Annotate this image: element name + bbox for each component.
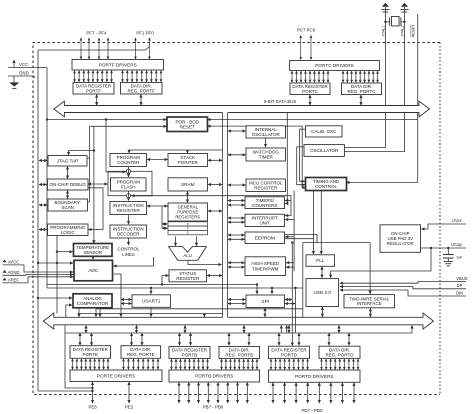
wire column to high speed timer right A	[286, 262, 294, 264]
box DATA REGISTER PORTB	[169, 347, 210, 359]
svg-text:ALU: ALU	[183, 253, 191, 258]
svg-text:PD7 - PD0: PD7 - PD0	[302, 408, 324, 413]
wire AVCC to ADC	[24, 265, 73, 272]
svg-text:REGISTER: REGISTER	[254, 185, 278, 190]
pin VBUS	[437, 276, 468, 282]
wire column to program counter	[129, 150, 223, 153]
wire USB to bus	[321, 307, 323, 317]
box TIMING AND CONTROL	[306, 178, 347, 191]
wire JTAG TAP to ON-CHIP DEBUG	[67, 167, 69, 179]
svg-text:PORTF DRIVERS: PORTF DRIVERS	[99, 62, 137, 67]
wire column to EEPROM B	[228, 238, 245, 240]
svg-text:PE2: PE2	[125, 405, 134, 410]
wire decoder to control lines	[128, 238, 130, 245]
wire register index feed	[161, 206, 163, 228]
wire drop to bus D	[150, 314, 152, 317]
svg-text:CONTROL: CONTROL	[315, 184, 337, 189]
wire PORTC dir to bus	[360, 95, 362, 105]
svg-text:REGISTER: REGISTER	[117, 208, 141, 213]
wire timing to PLL B	[320, 191, 322, 254]
wire ON-CHIP DEBUG to BOUNDARY SCAN	[67, 191, 69, 199]
svg-text:PF7 - PF4: PF7 - PF4	[86, 31, 107, 36]
svg-text:REGULATOR: REGULATOR	[387, 241, 414, 246]
wires PORTE register to drivers	[73, 359, 109, 370]
wire PE6 pin	[92, 382, 94, 403]
wire bus to line stub D2	[338, 325, 340, 333]
box INSTRUCTION DECODER	[110, 225, 147, 238]
wire riser to bus B	[286, 326, 288, 334]
wire top power rail horizontal	[38, 46, 149, 50]
wire column to timers A	[228, 200, 245, 202]
svg-text:REG. PORTE: REG. PORTE	[127, 352, 155, 357]
wire net down to boundary scan	[88, 126, 89, 202]
svg-text:SCAN: SCAN	[61, 205, 74, 210]
box OSCILLATOR	[304, 145, 344, 157]
wire column to high speed timer A	[228, 262, 245, 264]
wire column to MCU control register	[228, 184, 246, 186]
box PORTD DRIVERS	[269, 370, 361, 382]
junction PE6 net B	[91, 390, 93, 392]
box BOUNDARY SCAN	[48, 199, 88, 211]
box MCU CONTROL REGISTER	[246, 179, 286, 192]
box WATCHDOG TIMER	[246, 148, 286, 161]
junction rail comparator	[37, 297, 39, 299]
svg-text:COUNTER: COUNTER	[117, 160, 140, 165]
box ON-CHIP USB PAD 3V REGULATOR	[380, 225, 421, 253]
box STACK POINTER	[168, 154, 208, 167]
wire UVcc to regulator	[422, 224, 438, 229]
wires PORTF drivers to data dir register	[123, 71, 162, 82]
wire bus column to flash	[105, 120, 107, 173]
wire program counter to program flash	[128, 167, 130, 177]
wire drop to bus E	[203, 314, 205, 317]
wire data bus column B	[227, 112, 229, 317]
box DATA REGISTER PORTD	[269, 346, 310, 358]
svg-text:POINTER: POINTER	[178, 160, 199, 165]
box PROGRAM FLASH	[111, 178, 147, 191]
wire net to timers right	[285, 200, 291, 202]
svg-text:PORTE: PORTE	[83, 352, 98, 357]
junction circle program counter to flash	[126, 169, 130, 173]
box USART1	[132, 295, 171, 308]
wire data bus column A	[222, 112, 224, 317]
wires PORTB pins PB7-PB0	[179, 383, 247, 404]
svg-text:UNIT: UNIT	[260, 221, 271, 226]
wire line to port register B1	[179, 333, 181, 345]
wire control lines to ADC	[114, 257, 154, 266]
wire riser to bus A	[280, 326, 282, 334]
svg-text:FLASH: FLASH	[121, 185, 136, 190]
wire comparator to line A	[78, 308, 80, 314]
wire AREF to ADC	[28, 277, 73, 283]
svg-text:USB 2.0: USB 2.0	[314, 290, 332, 295]
junction line B	[271, 287, 273, 289]
wire timing to PLL A	[312, 191, 314, 254]
wire DM to USB	[340, 290, 437, 296]
wire oscillator to timing	[297, 147, 305, 185]
wire column to SPI A	[228, 299, 246, 301]
wire bus to analog comparator	[66, 305, 72, 317]
wires PORTD pins PD7-PD0	[273, 383, 354, 403]
box TWO-WIRE SERIAL INTERFACE	[344, 295, 395, 308]
svg-text:PORTC: PORTC	[302, 89, 318, 94]
box PLL	[306, 255, 335, 266]
svg-text:XTAL2: XTAL2	[401, 25, 405, 36]
box DATA REGISTER PORTF	[73, 83, 114, 95]
crystal symbol	[385, 17, 404, 27]
wire serial column to PORTD register	[291, 243, 293, 346]
wire instruction register to decoder	[128, 215, 130, 225]
wire internal oscillator to watchdog	[265, 138, 267, 147]
wire serial net column	[302, 243, 304, 318]
wire PE2 pin	[128, 382, 130, 403]
wire line to port register D3	[328, 333, 330, 345]
wire line to port register D4	[348, 333, 350, 345]
svg-text:1uF: 1uF	[456, 256, 463, 260]
svg-text:RESET: RESET	[412, 24, 416, 37]
wire status register to internal line	[162, 276, 169, 285]
svg-text:JTAG TAP: JTAG TAP	[57, 158, 79, 163]
box PORTE DRIVERS	[70, 370, 162, 382]
outer dotted chip boundary right edge	[439, 43, 441, 395]
wire flash loop rectangle	[108, 171, 152, 195]
svg-text:VCC: VCC	[19, 62, 28, 67]
wires PORTD dir to drivers	[322, 359, 359, 370]
svg-text:PLL: PLL	[316, 258, 325, 263]
wire column to high speed timer B	[228, 266, 245, 268]
wire POR-BOD to RESET line	[208, 119, 418, 121]
wire column to interrupt A	[228, 217, 245, 219]
wire instruction register to registers	[147, 205, 168, 207]
wire PORTF pin lines	[81, 38, 149, 59]
box X Y Z register rows	[168, 222, 208, 235]
wire net to USART1 B	[121, 303, 132, 305]
wire net to POR-BOD left	[89, 125, 166, 127]
svg-text:SENSOR: SENSOR	[83, 250, 102, 255]
svg-text:PORTD: PORTD	[281, 352, 297, 357]
wire SRAM to registers	[187, 192, 189, 203]
svg-text:DECODER: DECODER	[117, 232, 140, 237]
svg-text:AVCC: AVCC	[8, 260, 19, 265]
bus 8-bit data bus top	[54, 101, 430, 117]
svg-text:REGISTER: REGISTER	[176, 276, 200, 281]
junction rail analog	[37, 262, 39, 264]
wire SPI right to column A	[285, 299, 292, 301]
wire bus to line stub E	[85, 325, 87, 333]
svg-text:REG. PORTD: REG. PORTD	[326, 352, 355, 357]
wire SRAM to bus column	[208, 184, 222, 186]
svg-text:TIMER/PWM: TIMER/PWM	[252, 266, 278, 271]
wire line to port register B5	[248, 333, 250, 345]
svg-text:PORTE DRIVERS: PORTE DRIVERS	[97, 373, 135, 378]
svg-text:OSCILLATOR: OSCILLATOR	[252, 132, 281, 137]
box SRAM	[168, 178, 208, 191]
wire program counter to stack pointer	[147, 159, 168, 161]
wire rail to PROGRAMMING LOGIC	[39, 229, 47, 231]
box TIMERS COUNTERS	[245, 197, 285, 209]
box DATA REGISTER PORTE	[70, 346, 111, 359]
wire line to port register E4	[141, 333, 143, 345]
svg-text:TIMER: TIMER	[259, 155, 274, 160]
bus tap gap top bus	[222, 112, 228, 114]
wire registers to bus column	[208, 210, 222, 212]
wire bus column to flash junction	[106, 171, 125, 173]
svg-text:AGND: AGND	[7, 270, 19, 275]
junction line B column	[294, 287, 296, 289]
wire JTAG right stub	[88, 157, 90, 159]
wire net to USART1 A	[121, 299, 132, 301]
svg-text:REG. PORTC: REG. PORTC	[348, 89, 377, 94]
junction XTAL1 crystal tap	[384, 21, 386, 23]
svg-text:XTAL1: XTAL1	[382, 25, 386, 36]
wire column to temperature sensor	[57, 251, 73, 253]
svg-text:ADC: ADC	[88, 268, 99, 273]
box CALIB OSC	[306, 126, 343, 137]
wire left power rail to PE6	[38, 50, 93, 391]
junction JTAG feed	[93, 149, 95, 151]
wire line to port register B4	[228, 333, 230, 345]
svg-text:REG. PORTB: REG. PORTB	[225, 353, 253, 358]
box ANALOG COMPARATOR	[73, 294, 112, 308]
wire column to interrupt B	[228, 221, 245, 223]
box ON-CHIP DEBUG	[48, 179, 89, 190]
wire drop to bus B	[99, 314, 101, 317]
outer dashed chip boundary	[33, 43, 440, 395]
svg-text:ON-CHIP DEBUG: ON-CHIP DEBUG	[50, 182, 87, 187]
wire column to timers B	[228, 204, 245, 206]
junction status register line	[161, 283, 163, 285]
box PORTC DRIVERS	[290, 61, 380, 71]
box TEMPERATURE SENSOR	[74, 244, 113, 257]
wire PORTF dir to bus	[140, 95, 142, 106]
wire rail to analog comparator	[38, 297, 72, 299]
junction serial column	[291, 241, 293, 243]
wire line B to SPI	[271, 288, 273, 294]
wire ADC to lower net	[114, 274, 122, 314]
wire line to port register E2	[91, 333, 93, 345]
svg-text:USART1: USART1	[142, 299, 161, 304]
svg-text:COUNTERS: COUNTERS	[252, 203, 277, 208]
wire EEPROM right lower	[285, 238, 313, 240]
wire line to port register E1	[79, 333, 81, 345]
wire POR-BOD to timing and control	[208, 126, 306, 188]
box ADC	[74, 260, 113, 281]
wire line to USART1 top	[150, 287, 152, 294]
svg-text:PORTB: PORTB	[182, 353, 197, 358]
wire PLL to USB	[321, 267, 323, 278]
wire EEPROM right upper	[285, 235, 317, 243]
wire ON-CHIP DEBUG to PROGRAMMING LOGIC	[88, 188, 103, 230]
box PORTF DRIVERS	[72, 60, 164, 71]
junction rail POR-BOD	[46, 118, 48, 120]
wire line to port register E3	[131, 333, 133, 345]
svg-text:UCap: UCap	[451, 242, 462, 247]
wire rail to BOUNDARY SCAN	[39, 204, 47, 206]
pin AVCC	[2, 260, 24, 265]
svg-text:LOGIC: LOGIC	[61, 230, 76, 235]
wire bus to line stub B2	[243, 325, 245, 333]
box PROGRAMMING LOGIC	[48, 224, 89, 236]
wire to X register	[162, 223, 168, 225]
wire column to EEPROM right	[285, 236, 294, 238]
pin UVcc	[437, 218, 466, 224]
svg-text:RESET: RESET	[180, 124, 195, 129]
box DATA REGISTER PORTC	[290, 83, 330, 95]
box INTERNAL OSCILLATOR	[246, 126, 286, 138]
svg-text:PF1 PF0: PF1 PF0	[136, 31, 154, 36]
wire column to EEPROM A	[228, 234, 245, 236]
ground symbol below capacitor	[444, 262, 453, 266]
box DATA DIR REG PORTD	[319, 346, 360, 358]
box INSTRUCTION REGISTER	[110, 202, 147, 215]
pin DP	[437, 283, 466, 289]
wire column to internal oscillator	[228, 130, 246, 132]
wire column to high speed timer right B	[286, 266, 294, 268]
wire serial net horizontal	[303, 242, 370, 244]
wire comparator output line	[78, 313, 223, 315]
box PORTB DRIVERS	[169, 370, 260, 382]
svg-text:PORTC DRIVERS: PORTC DRIVERS	[315, 63, 353, 68]
junction UCap net	[430, 247, 432, 249]
wire programming logic down column	[56, 236, 58, 314]
pin DM	[437, 290, 466, 296]
svg-text:REG. PORTF: REG. PORTF	[128, 88, 156, 93]
wire PORTF register to bus	[96, 95, 98, 106]
junction line A	[256, 283, 258, 285]
svg-text:SRAM: SRAM	[181, 182, 195, 187]
box GENERAL PURPOSE REGISTERS	[168, 203, 208, 221]
wire comparator to line B	[99, 308, 101, 314]
box DATA DIR REG PORTE	[121, 346, 161, 359]
junction ADC feed	[56, 262, 58, 264]
wires PORTC drivers to data register	[292, 71, 328, 82]
box POR-BOD RESET	[167, 117, 208, 132]
wire bus branch to PE6	[65, 325, 93, 388]
svg-text:CONTROL: CONTROL	[117, 247, 139, 252]
wire flash loop to lower junction	[132, 195, 152, 197]
wire timing control down column	[293, 191, 295, 272]
svg-text:PORTF: PORTF	[86, 88, 101, 93]
svg-text:PORTD DRIVERS: PORTD DRIVERS	[295, 374, 333, 379]
wire DP to USB	[340, 287, 437, 289]
wire USART1 bottom	[150, 308, 152, 314]
pin XTAL1 pad symbol	[381, 3, 389, 12]
junction UCap capacitor tap	[447, 247, 449, 249]
wire bus to line stub D	[288, 325, 290, 333]
box INTERRUPT UNIT	[245, 214, 285, 226]
svg-text:DM: DM	[456, 290, 463, 295]
wire ALU to data bus column	[188, 260, 222, 264]
wire rail to ADC upper left	[38, 262, 73, 264]
svg-text:PC7 PC6: PC7 PC6	[297, 28, 316, 33]
wires PORTB register to drivers	[172, 359, 208, 369]
wires PORTD register to drivers	[271, 359, 308, 370]
wire line to port register D2	[298, 333, 300, 345]
wire UCap net to USB top	[331, 248, 431, 278]
svg-text:8-BIT DATA BUS: 8-BIT DATA BUS	[264, 99, 296, 104]
wire distribution line below bus	[65, 332, 412, 334]
pin XTAL2 pad symbol	[400, 3, 408, 12]
junction PE6 net A	[91, 387, 93, 389]
wire XTAL1 to oscillator	[344, 7, 385, 148]
wire bus column to timers	[285, 112, 287, 203]
wire bus to line stub E2	[136, 325, 138, 333]
svg-text:OSCILLATOR: OSCILLATOR	[310, 148, 339, 153]
wire net down to temperature sensor	[93, 126, 95, 243]
box STATUS REGISTER	[169, 270, 207, 282]
wire net to two-wire interface	[369, 243, 371, 294]
box DATA DIR REG PORTF	[121, 83, 163, 95]
box HIGH SPEED TIMER PWM	[245, 257, 286, 276]
wire registers to ALU left	[175, 236, 177, 246]
junction XTAL2 crystal tap	[403, 21, 405, 23]
wire column to watchdog timer	[228, 154, 246, 156]
pin AGND	[2, 270, 26, 275]
wire AGND to ADC	[26, 274, 73, 277]
pin VCC	[8, 60, 47, 68]
bus data bus bottom	[43, 313, 433, 329]
wire XTAL2 to oscillator	[344, 7, 404, 152]
box EEPROM	[245, 232, 285, 244]
wire temperature sensor to ADC	[92, 256, 94, 259]
junction flash column	[105, 118, 107, 120]
wire VCC rail vertical	[46, 68, 48, 289]
svg-text:GND: GND	[19, 71, 29, 76]
alu ALU	[169, 247, 207, 261]
wire VBUS to USB	[340, 282, 437, 284]
bus tap gap bottom bus	[222, 316, 228, 318]
wire line to port register B2	[190, 333, 192, 345]
box USB 2.0	[306, 279, 339, 307]
wire to Y register	[162, 227, 168, 229]
wire rail to POR-BOD left	[47, 119, 167, 121]
svg-text:LINES: LINES	[122, 252, 135, 257]
box PROGRAM COUNTER	[110, 154, 147, 167]
junction temperature sensor feed	[56, 251, 58, 253]
wire registers to ALU right	[196, 236, 198, 246]
wire SPI right to column B	[285, 303, 295, 305]
wire drop to bus A	[78, 314, 80, 317]
wire line B column down	[295, 288, 297, 333]
wire RESET to timing and control	[347, 14, 418, 182]
wire USART SPI link line	[96, 308, 303, 310]
wire SPI to bus	[264, 308, 266, 317]
wire status register to bus column	[207, 275, 222, 277]
pin AREF	[2, 278, 28, 283]
wire drop to bus C	[120, 314, 122, 317]
capacitor 1uF	[443, 248, 463, 262]
wire rail to ON-CHIP DEBUG	[39, 184, 47, 186]
wires PORTC drivers to data dir register	[343, 71, 378, 82]
svg-text:REGISTERS: REGISTERS	[175, 214, 200, 219]
svg-text:EEPROM: EEPROM	[255, 235, 275, 240]
wire reset net to JTAG TAP	[69, 151, 94, 156]
wires PORTF drivers to data register	[75, 71, 112, 82]
box SPI	[246, 295, 285, 308]
wire ON-CHIP DEBUG to program flash	[88, 183, 108, 185]
pin GND and ground symbol	[8, 71, 35, 89]
wire program flash to instruction register	[128, 191, 130, 201]
box DATA DIR REG PORTC	[342, 83, 382, 95]
junction circle flash to instruction register	[126, 194, 130, 198]
wire bus to line stub B	[184, 325, 186, 333]
svg-text:SPI: SPI	[261, 299, 269, 304]
node RESET label with overline	[411, 24, 416, 37]
svg-text:Z: Z	[187, 231, 189, 235]
svg-text:UVcc: UVcc	[452, 218, 462, 223]
wire riser to bus C	[411, 326, 413, 334]
wire column to SPI B	[228, 303, 246, 305]
